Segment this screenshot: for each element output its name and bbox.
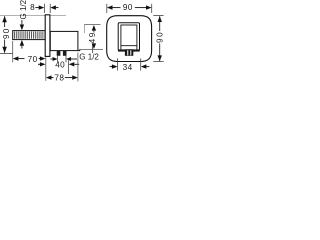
svg-text:90: 90 bbox=[123, 3, 133, 12]
svg-text:40: 40 bbox=[55, 60, 65, 69]
svg-text:34: 34 bbox=[123, 63, 133, 72]
svg-text:G 1/2: G 1/2 bbox=[79, 53, 99, 62]
svg-text:G 1/2: G 1/2 bbox=[19, 0, 28, 19]
svg-text:78: 78 bbox=[54, 73, 64, 82]
svg-text:49: 49 bbox=[88, 31, 97, 43]
svg-text:8: 8 bbox=[30, 3, 35, 12]
svg-text:70: 70 bbox=[28, 55, 38, 64]
svg-text:90: 90 bbox=[2, 27, 11, 39]
svg-text:90: 90 bbox=[155, 31, 164, 43]
